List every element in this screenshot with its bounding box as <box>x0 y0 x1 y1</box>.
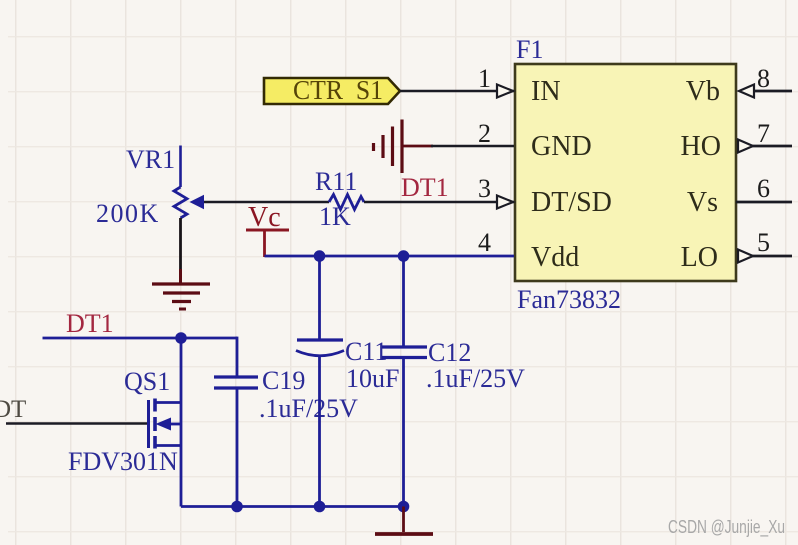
svg-text:F1: F1 <box>516 35 543 64</box>
junction rail C11 <box>314 501 326 513</box>
wire C19 to rail <box>236 388 239 507</box>
pin number 4 <box>478 228 491 257</box>
svg-text:DT1: DT1 <box>66 309 114 338</box>
ground below VR1 <box>152 269 210 309</box>
pin number 1 <box>478 64 491 93</box>
wire ground rail <box>181 505 404 508</box>
capacitor C11 (polarized) <box>296 256 399 393</box>
svg-text:DT1: DT1 <box>401 173 449 202</box>
net label DT (clipped, gate) <box>0 396 26 423</box>
pin name HO <box>681 131 721 162</box>
pin name Vdd <box>531 242 579 273</box>
svg-text:200K: 200K <box>96 199 160 228</box>
capacitor C12 <box>382 256 525 393</box>
IC designator F1 <box>516 35 543 64</box>
pin number 6 <box>757 174 770 203</box>
svg-text:1K: 1K <box>319 202 351 231</box>
svg-text:VR1: VR1 <box>126 145 175 174</box>
pin 8 arrow (points left) <box>739 85 754 98</box>
wire pin2 ground to GND <box>431 145 514 148</box>
svg-text:Vb: Vb <box>686 76 720 107</box>
IC F1 Fan73832 body <box>515 64 736 281</box>
svg-text:C19: C19 <box>262 366 305 395</box>
svg-text:C12: C12 <box>428 338 471 367</box>
pin 3 input arrow <box>497 196 513 209</box>
ground at rail bottom <box>375 507 433 535</box>
svg-text:6: 6 <box>757 174 770 203</box>
wire QS1 drain-source vertical <box>180 338 183 507</box>
pin name GND <box>531 131 592 162</box>
pin name IN <box>531 76 561 107</box>
pin number 7 <box>757 119 770 148</box>
wire pin 5 LO <box>752 255 792 258</box>
svg-text:LO: LO <box>681 242 718 273</box>
svg-text:Vdd: Vdd <box>531 242 579 273</box>
pin 5 arrow (points right) <box>738 250 753 263</box>
net label DT1 (left) <box>66 309 114 338</box>
pin number 8 <box>757 64 770 93</box>
svg-text:IN: IN <box>531 76 561 107</box>
wire C12 to rail <box>402 358 405 507</box>
wire pin 8 Vb <box>753 90 792 93</box>
svg-text:Vs: Vs <box>687 187 718 218</box>
svg-text:3: 3 <box>478 174 491 203</box>
junction rail C19 <box>231 501 243 513</box>
pin name Vb <box>686 76 720 107</box>
pin name LO <box>681 242 718 273</box>
transistor QS1 FDV301N <box>68 367 181 476</box>
svg-text:4: 4 <box>478 228 491 257</box>
wire C11 to rail <box>318 356 321 507</box>
svg-text:8: 8 <box>757 64 770 93</box>
svg-text:2: 2 <box>478 119 491 148</box>
pin 1 input arrow <box>497 85 513 98</box>
pin 7 arrow (points right) <box>738 140 753 153</box>
potentiometer VR1 <box>96 145 204 228</box>
svg-text:5: 5 <box>757 228 770 257</box>
wire DT1 down to C19 <box>236 337 239 377</box>
wire R11 to pin 3 <box>364 201 514 204</box>
junction C12 tap on Vdd <box>398 250 410 262</box>
wire pin 7 HO <box>752 145 792 148</box>
svg-text:C11: C11 <box>345 337 387 366</box>
svg-text:.1uF/25V: .1uF/25V <box>259 394 358 423</box>
svg-text:Vc: Vc <box>248 202 281 233</box>
wire pin1 CTR S1 to IN <box>400 90 514 93</box>
sheet entry CTR S1 banner <box>264 75 400 105</box>
svg-text:1: 1 <box>478 64 491 93</box>
wire gate DT <box>6 422 147 425</box>
svg-text:CSDN @Junjie_Xu: CSDN @Junjie_Xu <box>668 517 785 538</box>
wire DT1 horizontal <box>43 337 238 340</box>
svg-text:QS1: QS1 <box>124 367 170 396</box>
wire wiper to R11 <box>203 201 329 204</box>
svg-text:GND: GND <box>531 131 592 162</box>
IC part value Fan73832 <box>517 285 621 314</box>
svg-text:Fan73832: Fan73832 <box>517 285 621 314</box>
capacitor C19 <box>214 366 358 423</box>
pin name DT/SD <box>531 187 612 218</box>
ground (rotated) at pin 2 <box>374 120 434 174</box>
junction rail C12 <box>398 501 410 513</box>
svg-text:.1uF/25V: .1uF/25V <box>426 364 525 393</box>
svg-text:DT: DT <box>0 396 26 423</box>
svg-text:R11: R11 <box>315 167 357 196</box>
wire Vdd (pin 4) <box>265 255 515 258</box>
pin number 5 <box>757 228 770 257</box>
wire VR1 bottom to ground <box>179 218 182 271</box>
resistor R11 <box>315 167 364 231</box>
watermark <box>668 517 785 538</box>
svg-text:7: 7 <box>757 119 770 148</box>
wire pin 6 Vs <box>736 201 792 204</box>
pin name Vs <box>687 187 718 218</box>
pin number 3 <box>478 174 491 203</box>
svg-text:DT/SD: DT/SD <box>531 187 612 218</box>
junction C11 tap on Vdd <box>314 250 326 262</box>
svg-text:10uF: 10uF <box>346 364 399 393</box>
svg-text:FDV301N: FDV301N <box>68 447 178 476</box>
svg-text:CTR S1: CTR S1 <box>293 75 383 105</box>
net label DT1 (at pin 3) <box>401 173 449 202</box>
svg-text:HO: HO <box>681 131 721 162</box>
junction QS1 drain on DT1 <box>175 332 187 344</box>
pin number 2 <box>478 119 491 148</box>
power port Vc <box>246 202 289 257</box>
